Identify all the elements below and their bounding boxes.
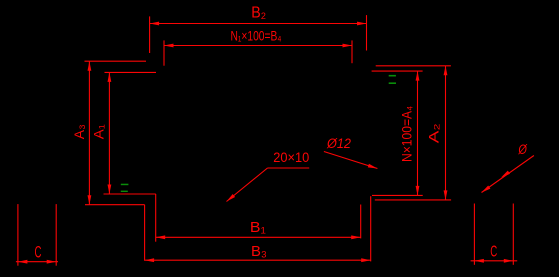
svg-text:A₃: A₃ [72,124,87,139]
wire C right extension line 1 [473,204,475,265]
wire 20x10 leader diagonal [227,168,268,202]
arrow N1 right [343,44,353,48]
wire Nx100=A4 dimension line [417,71,419,195]
arrow A3 top [88,61,92,70]
wire N1 extension line left [163,40,165,65]
wire B3 extension line left [144,205,146,261]
svg-text:Ø12: Ø12 [326,135,351,151]
arrow B1 left [156,235,166,239]
arrow dia12 leader [368,164,378,169]
wire A3 bottom extension line [85,204,145,206]
wire C right dimension line [471,260,518,262]
arrow B3 left [145,258,155,262]
wire A1 dimension line [108,72,110,194]
arrow A1 bottom [108,185,112,195]
node mark bottom-left dash 1 [121,184,129,186]
node mark top-right dash 1 [389,75,396,77]
wire C left dimension line [16,261,58,263]
arrow A4 bottom [416,186,420,196]
arrow C right dim right [504,259,514,263]
wire A2 top extension line [376,65,451,67]
arrow dia leader end [482,186,491,193]
svg-text:A₁: A₁ [92,124,107,139]
wire B2 extension line right [366,15,368,50]
wire dia leader diagonal [482,156,534,193]
svg-text:C: C [490,244,497,261]
wire A1 bottom extension line [104,193,156,195]
wire N1 extension line right [351,40,353,63]
wire B3 dimension line [145,259,371,261]
wire B1 extension line right [360,205,362,239]
wire A3 top extension line [85,60,147,62]
svg-text:A₂: A₂ [426,123,442,143]
wire 20x10 leader underline [268,167,310,169]
arrow 20x10 leader [227,194,236,202]
arrow dia leader mid [501,171,510,178]
arrow A1 top [108,72,112,82]
svg-text:20×10: 20×10 [273,149,309,165]
wire N1x100=B4 dimension line [164,45,352,47]
wire A4 bottom extension line [372,194,423,196]
svg-text:B₂: B₂ [251,4,266,21]
arrow C right dim left [474,259,484,263]
arrow B2 left [150,22,160,26]
arrow A4 top [416,71,420,81]
wire B2 dimension line [150,23,367,25]
wire B2 extension line left [149,16,151,53]
wire A2 bottom extension line [375,199,451,201]
wire C left extension line 2 [55,204,57,266]
arrow C left dim left [18,260,28,264]
arrow A3 bottom [88,195,92,205]
svg-text:Ø: Ø [518,141,528,157]
wire A3 dimension line [88,61,90,205]
arrow B1 right [351,235,361,239]
svg-text:B₁: B₁ [250,219,266,236]
svg-text:C: C [35,244,42,262]
wire B1 extension line left [155,194,157,242]
wire A4 top extension line [372,70,423,72]
wire B1 dimension line [156,236,361,238]
arrow N1 left [164,44,174,48]
svg-text:N₁×100=B₄: N₁×100=B₄ [231,28,282,44]
arrow A2 bottom [444,190,448,200]
svg-text:B₃: B₃ [251,243,267,260]
wire B3 extension line right [370,196,372,261]
node mark bottom-left dash 2 [121,191,128,192]
wire C right extension line 2 [512,204,514,265]
wire C left extension line 1 [17,204,19,266]
arrow B3 right [361,258,371,262]
wire A2 dimension line [445,66,447,200]
wire A1 top extension line [105,71,157,73]
node mark top-right dash 2 [389,82,396,84]
wire dia12 leader [324,152,378,169]
arrow C left dim right [47,260,57,264]
svg-text:N×100=A₄: N×100=A₄ [398,106,414,162]
arrow A2 top [444,66,448,76]
arrow B2 right [357,22,367,26]
